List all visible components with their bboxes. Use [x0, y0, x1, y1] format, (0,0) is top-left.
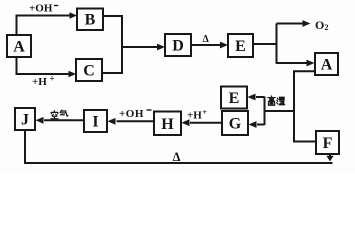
svg-text:G: G	[229, 116, 242, 133]
svg-text:I: I	[92, 114, 98, 131]
svg-text:2: 2	[325, 23, 329, 32]
svg-text:O: O	[315, 18, 324, 32]
svg-text:Δ: Δ	[173, 150, 181, 164]
svg-text:E: E	[229, 90, 240, 107]
svg-text:+: +	[50, 74, 55, 84]
svg-text:H: H	[161, 116, 174, 133]
svg-text:A: A	[321, 57, 333, 74]
svg-text:A: A	[13, 39, 25, 56]
svg-text:D: D	[172, 38, 184, 55]
svg-text:F: F	[323, 135, 333, 152]
svg-text:J: J	[21, 112, 29, 129]
svg-text:+OH: +OH	[29, 3, 53, 15]
svg-text:+H: +H	[32, 76, 47, 88]
svg-text:E: E	[235, 38, 246, 55]
svg-text:B: B	[85, 12, 96, 29]
svg-text:+OH: +OH	[119, 108, 144, 120]
svg-text:+: +	[203, 108, 208, 117]
svg-text:Δ: Δ	[203, 34, 210, 45]
svg-text:+H: +H	[187, 110, 202, 122]
svg-text:C: C	[83, 63, 95, 80]
